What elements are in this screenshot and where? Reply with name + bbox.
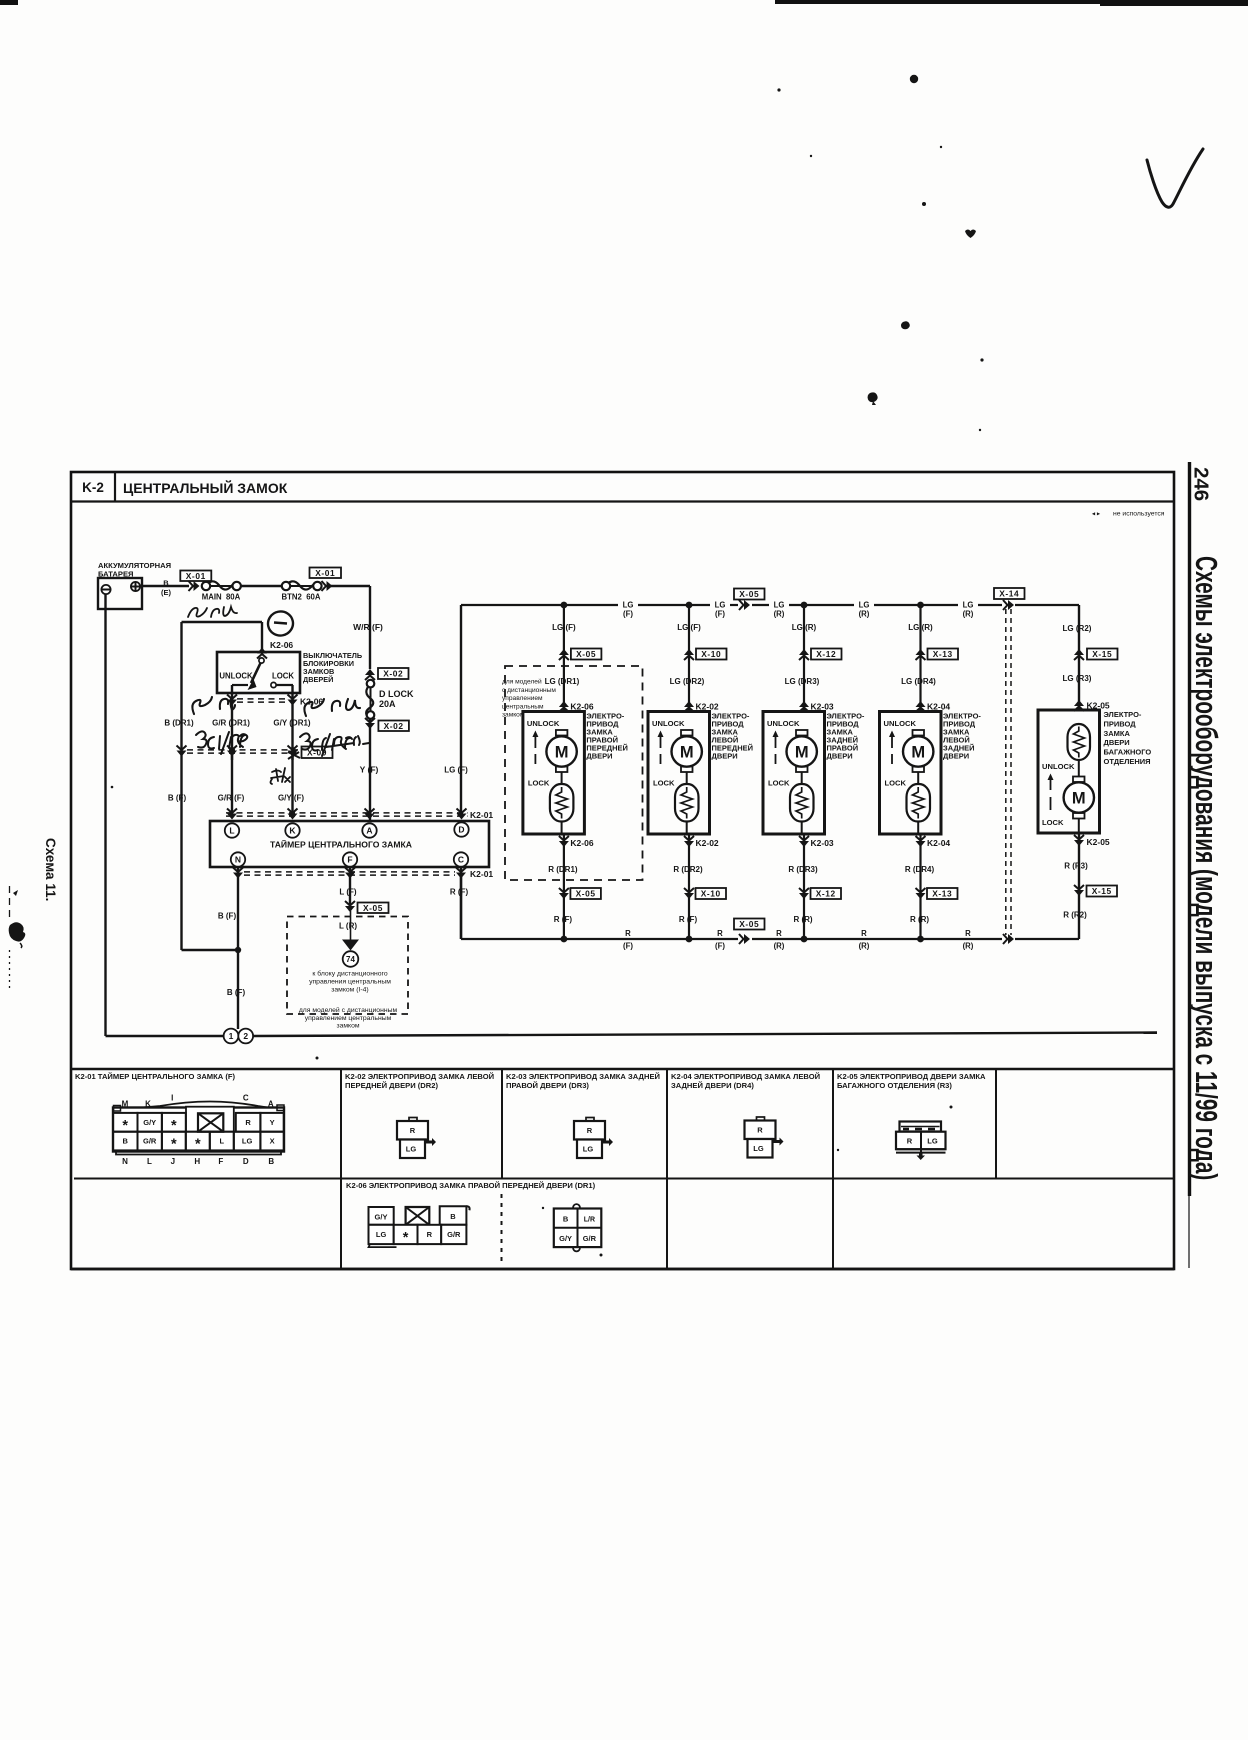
svg-text:LG: LG	[774, 601, 785, 610]
svg-text:Y (F): Y (F)	[360, 765, 379, 775]
handwriting Черн	[188, 607, 237, 617]
svg-text:L (F): L (F)	[339, 888, 357, 897]
dashed divider row2	[501, 1194, 503, 1265]
svg-text:замком (I-4): замком (I-4)	[331, 987, 368, 994]
svg-text:управления центральным: управления центральным	[309, 979, 391, 986]
label box X-05 top	[571, 649, 602, 660]
connector X-01 left	[189, 581, 194, 591]
margin ink blob	[9, 922, 26, 941]
connector K2-01 pin A entry	[365, 809, 375, 814]
timer pin F	[343, 852, 357, 866]
junction LG bus	[561, 602, 568, 609]
connector K2-03 top	[799, 708, 809, 713]
wire switch feed horizontal	[182, 621, 263, 623]
svg-text:74: 74	[346, 955, 355, 964]
svg-text:K2-01 ТАЙМЕР ЦЕНТРАЛЬНОГО ЗАМК: K2-01 ТАЙМЕР ЦЕНТРАЛЬНОГО ЗАМКА (F)	[75, 1072, 236, 1081]
svg-text:Схема 11.: Схема 11.	[43, 838, 58, 901]
connector drawing K2-01	[113, 1102, 284, 1111]
resistor K2-04	[907, 784, 931, 822]
label box X-13 bottom	[927, 888, 958, 899]
svg-text:(F): (F)	[623, 610, 633, 619]
scan edge line top	[775, 0, 1248, 4]
svg-text:LOCK: LOCK	[885, 779, 907, 788]
svg-text:LG (DR4): LG (DR4)	[901, 677, 936, 686]
svg-text:LG (F): LG (F)	[444, 766, 468, 775]
connector X-09 pin G/Y	[288, 746, 298, 751]
lock direction arrow	[660, 737, 662, 748]
resistor K2-02	[675, 784, 699, 822]
svg-text:Y: Y	[270, 1118, 275, 1127]
svg-text:*: *	[195, 1137, 201, 1153]
connector K2-02 bottom	[684, 836, 694, 841]
svg-text:G/R: G/R	[143, 1137, 157, 1146]
svg-text:G/Y: G/Y	[143, 1118, 156, 1127]
svg-text:G/Y (F): G/Y (F)	[278, 794, 304, 803]
svg-text:LG: LG	[715, 601, 726, 610]
connector drawing K2-04	[757, 1117, 765, 1121]
svg-text:R: R	[717, 929, 723, 938]
connector X-05 pin L	[345, 901, 355, 906]
svg-text:K2-05 ЭЛЕКТРОПРИВОД ДВЕРИ ЗАМК: K2-05 ЭЛЕКТРОПРИВОД ДВЕРИ ЗАМКА	[837, 1072, 986, 1081]
wire LG (R2) trunk riser	[1078, 605, 1080, 710]
svg-text:B (F): B (F)	[218, 912, 237, 921]
label box X-13 top	[928, 649, 959, 660]
dashed box remote models DR1	[505, 666, 643, 880]
junction LG bus	[686, 602, 693, 609]
fuse BTN2 60A	[286, 585, 317, 587]
connector K2-01 pin N exit	[233, 868, 243, 873]
junction R bus	[686, 936, 693, 943]
svg-text:R: R	[757, 1126, 763, 1135]
svg-text:X-10: X-10	[701, 649, 721, 659]
svg-text:LG (R2): LG (R2)	[1063, 624, 1092, 633]
label box X-09	[302, 747, 333, 759]
svg-text:R: R	[965, 929, 971, 938]
timer pin L	[225, 823, 239, 837]
svg-text:LOCK: LOCK	[272, 672, 294, 681]
svg-text:R: R	[861, 929, 867, 938]
svg-text:B (F): B (F)	[168, 794, 187, 803]
svg-text:B: B	[268, 1157, 274, 1166]
wire ground return long	[253, 1033, 1157, 1037]
svg-text:X-05: X-05	[576, 649, 596, 659]
svg-text:для моделей с дистанционным: для моделей с дистанционным	[299, 1006, 398, 1014]
connector row X-09	[187, 749, 300, 751]
svg-text:R (R3): R (R3)	[1064, 862, 1088, 871]
svg-text:ДВЕРИ: ДВЕРИ	[1104, 738, 1130, 747]
connector X-12 top	[799, 656, 809, 661]
resistor K2-03	[790, 784, 814, 822]
svg-text:K2-01: K2-01	[470, 810, 493, 820]
connector K2-04 bottom	[916, 836, 926, 841]
connector row K2-06 below switch	[237, 698, 288, 700]
label box X-01 second	[310, 568, 342, 579]
svg-text:(F): (F)	[715, 610, 725, 619]
connector K2-01 pin C exit	[456, 868, 466, 873]
svg-text:ДВЕРИ: ДВЕРИ	[827, 752, 853, 761]
connector X-05 bottom	[559, 888, 569, 893]
svg-text:X-15: X-15	[1092, 649, 1112, 659]
actuator front left door DR2	[688, 605, 690, 713]
svg-text:R (R2): R (R2)	[1063, 911, 1087, 920]
connector X-02 bottom	[365, 718, 375, 723]
svg-text:(R): (R)	[774, 610, 785, 619]
fuse D LOCK 20A	[370, 684, 372, 715]
svg-text:K2-04 ЭЛЕКТРОПРИВОД ЗАМКА ЛЕВО: K2-04 ЭЛЕКТРОПРИВОД ЗАМКА ЛЕВОЙ	[671, 1072, 820, 1081]
svg-text:ДВЕРИ: ДВЕРИ	[712, 752, 738, 761]
svg-text:(R): (R)	[963, 942, 974, 951]
svg-text:LG: LG	[753, 1144, 764, 1153]
label box X-15 bottom	[1087, 886, 1118, 897]
svg-text:B: B	[450, 1212, 456, 1221]
svg-text:Схемы электрооборудования (мод: Схемы электрооборудования (модели выпуск…	[1189, 556, 1224, 1180]
connector drawing K2-05	[900, 1122, 942, 1132]
wire Y (F) to timer pin A	[369, 719, 371, 821]
connector K2-06 pin lock	[288, 695, 298, 700]
label box X-05 bus bottom	[734, 919, 765, 930]
node 2	[238, 1029, 253, 1044]
wire G/R at X-09	[231, 747, 233, 760]
svg-text:*: *	[403, 1230, 409, 1246]
timer pin D	[454, 822, 468, 836]
wire G/Y switch to timer K	[291, 685, 293, 814]
sidebar separator line	[1188, 462, 1191, 1196]
svg-text:K2-04: K2-04	[927, 838, 950, 848]
svg-text:H: H	[194, 1157, 200, 1166]
timer pin N	[231, 852, 245, 866]
motor M K2-03	[796, 730, 808, 736]
svg-text:X-13: X-13	[933, 649, 953, 659]
svg-text:M: M	[555, 744, 569, 762]
svg-text:N: N	[122, 1157, 128, 1166]
svg-text:L: L	[220, 1137, 225, 1146]
svg-text:G/Y (DR1): G/Y (DR1)	[273, 719, 311, 728]
junction R bus	[801, 936, 808, 943]
svg-text:C: C	[243, 1094, 249, 1103]
svg-text:1: 1	[229, 1031, 234, 1041]
timer pin A	[362, 823, 376, 837]
svg-text:R: R	[776, 929, 782, 938]
resistor K2-06	[550, 784, 574, 822]
label box X-02 bottom	[378, 721, 409, 732]
handwriting ЗС1/КР big left	[196, 731, 247, 754]
svg-text:M: M	[911, 744, 925, 762]
connector K2-01 pin D entry	[457, 809, 467, 814]
label box X-15 top	[1087, 649, 1118, 660]
junction R bus	[917, 936, 924, 943]
handwriting scribble 2	[304, 699, 360, 716]
svg-text:M: M	[122, 1100, 129, 1109]
junction B wire	[235, 947, 241, 953]
connector K2-04 top	[916, 708, 926, 713]
timer pin K	[285, 823, 299, 837]
svg-text:A: A	[268, 1100, 274, 1109]
svg-text:UNLOCK: UNLOCK	[884, 719, 917, 728]
wire between fuses	[241, 585, 282, 587]
connector X-14 top	[1003, 600, 1008, 610]
switch ВЫКЛЮЧАТЕЛЬ БЛОКИРОВКИ ЗАМКОВ ДВЕРЕЙ	[217, 652, 300, 693]
svg-text:M: M	[1072, 790, 1086, 808]
svg-text:ОТДЕЛЕНИЯ: ОТДЕЛЕНИЯ	[1104, 757, 1151, 766]
svg-text:X-05: X-05	[363, 903, 383, 913]
label box X-10 top	[696, 649, 727, 660]
svg-text:R (DR4): R (DR4)	[905, 865, 935, 874]
svg-text:LG: LG	[859, 601, 870, 610]
svg-text:LOCK: LOCK	[1042, 818, 1064, 827]
svg-text:R (F): R (F)	[679, 915, 698, 924]
svg-text:G/R: G/R	[447, 1230, 461, 1239]
svg-text:ЗАМКА: ЗАМКА	[1104, 729, 1131, 738]
svg-text:K: K	[145, 1100, 151, 1109]
svg-text:БАТАРЕЯ: БАТАРЕЯ	[98, 570, 134, 579]
svg-text:M: M	[795, 744, 809, 762]
table column dividers	[340, 1069, 342, 1269]
diagram outer frame	[71, 472, 1174, 1269]
svg-text:MAIN 80A: MAIN 80A	[202, 593, 241, 602]
svg-text:X-02: X-02	[384, 721, 404, 731]
connector X-05 top	[559, 656, 569, 661]
connector X-10 bottom	[684, 888, 694, 893]
svg-text:ПЕРЕДНЕЙ ДВЕРИ (DR2): ПЕРЕДНЕЙ ДВЕРИ (DR2)	[345, 1081, 438, 1090]
svg-text:X-12: X-12	[816, 649, 836, 659]
dashed box remote control unit	[287, 917, 408, 1015]
svg-text:UNLOCK: UNLOCK	[652, 719, 685, 728]
wire B (F) from pin N	[237, 867, 239, 1029]
timer pin C	[454, 852, 468, 866]
handwriting scribble 1	[192, 697, 235, 714]
svg-text:LG (R): LG (R)	[792, 623, 817, 632]
wire to W/R riser	[331, 585, 370, 587]
svg-text:LG (DR2): LG (DR2)	[670, 677, 705, 686]
handwriting emphasis at X-09	[288, 752, 300, 759]
connector X-10 top	[684, 656, 694, 661]
svg-text:A: A	[366, 826, 372, 836]
connector K2-06 bottom	[559, 836, 569, 841]
svg-text:G/R (DR1): G/R (DR1)	[212, 719, 250, 728]
wire G/R switch to timer L	[231, 685, 233, 814]
actuator front right door DR1	[563, 605, 565, 713]
connector X-05 bus bottom	[739, 934, 744, 944]
svg-text:ЗАДНЕЙ ДВЕРИ (DR4): ЗАДНЕЙ ДВЕРИ (DR4)	[671, 1081, 754, 1090]
handwriting oval mark	[266, 609, 295, 638]
svg-text:R (F): R (F)	[554, 915, 573, 924]
svg-text:БАГАЖНОГО ОТДЕЛЕНИЯ (R3): БАГАЖНОГО ОТДЕЛЕНИЯ (R3)	[837, 1081, 952, 1090]
svg-text:R (F): R (F)	[450, 888, 469, 897]
handwriting ЗСЛ/КР big right	[300, 733, 369, 756]
connector X-14 bottom	[1003, 934, 1008, 944]
lock direction arrow	[891, 737, 893, 748]
connector K2-02 top	[684, 708, 694, 713]
svg-text:K2-05: K2-05	[1087, 837, 1110, 847]
connector X-02 top	[365, 676, 375, 681]
svg-text:LG: LG	[406, 1145, 417, 1154]
connector row K2-01 top	[226, 812, 468, 814]
svg-text:2: 2	[243, 1031, 248, 1041]
svg-text:LG (F): LG (F)	[552, 623, 576, 632]
connector X-09 pin G/R	[227, 746, 237, 751]
svg-text:с дистанционным: с дистанционным	[502, 687, 556, 694]
label box X-10 bottom	[696, 888, 727, 899]
svg-text:X-01: X-01	[315, 568, 335, 578]
svg-text:K2-03 ЭЛЕКТРОПРИВОД ЗАМКА ЗАДН: K2-03 ЭЛЕКТРОПРИВОД ЗАМКА ЗАДНЕЙ	[506, 1072, 660, 1081]
connector K2-01 pin F exit	[345, 868, 355, 873]
lock direction arrow	[534, 737, 536, 748]
svg-text:B: B	[163, 579, 169, 588]
svg-text:UNLOCK: UNLOCK	[219, 672, 253, 681]
battery АККУМУЛЯТОРНАЯ БАТАРЕЯ	[98, 578, 142, 609]
actuator box K2-02	[648, 712, 710, 835]
svg-text:UNLOCK: UNLOCK	[1042, 762, 1075, 771]
connector K2-05 bottom	[1074, 835, 1084, 840]
svg-text:LOCK: LOCK	[653, 779, 675, 788]
connector K2-06 switch	[257, 654, 267, 659]
handwritten checkmark	[1147, 149, 1203, 207]
connector X-15 top	[1074, 656, 1084, 661]
connector K2-06 top	[559, 708, 569, 713]
connector drawing K2-06	[369, 1207, 394, 1225]
svg-text:R (R): R (R)	[793, 915, 812, 924]
svg-text:R: R	[625, 929, 631, 938]
svg-text:LG (R): LG (R)	[908, 623, 933, 632]
svg-text:UNLOCK: UNLOCK	[527, 719, 560, 728]
svg-text:LG (R3): LG (R3)	[1063, 674, 1092, 683]
svg-text:M: M	[680, 744, 694, 762]
connector row K2-01 bottom	[244, 871, 455, 873]
svg-text:центральным: центральным	[502, 703, 544, 710]
node 1	[224, 1029, 239, 1044]
wire L (F) from pin F	[349, 867, 351, 911]
svg-text:R: R	[245, 1118, 251, 1127]
connector X-14 dashed link	[1005, 609, 1007, 935]
table frame	[71, 1068, 1174, 1070]
svg-text:LG (F): LG (F)	[677, 623, 701, 632]
svg-text:D: D	[458, 825, 464, 835]
svg-text:X-10: X-10	[701, 889, 721, 899]
motor M K2-06	[556, 730, 568, 736]
connector K2-06 pin unlock	[227, 695, 237, 700]
wire W/R (F) riser	[369, 586, 371, 669]
svg-text:для моделей: для моделей	[502, 678, 542, 686]
svg-text:J: J	[171, 1157, 175, 1166]
svg-text:X: X	[270, 1137, 275, 1146]
resistor K2-05	[1068, 724, 1091, 760]
svg-text:K2-03: K2-03	[811, 838, 834, 848]
svg-text:G/Y: G/Y	[559, 1234, 572, 1243]
svg-text:B: B	[563, 1215, 569, 1224]
connector drawing K2-02	[409, 1118, 417, 1122]
motor M trunk	[1073, 777, 1085, 783]
motor M K2-02	[681, 730, 693, 736]
svg-text:LG: LG	[583, 1145, 594, 1154]
svg-text:LG (DR1): LG (DR1)	[545, 677, 580, 686]
svg-text:X-13: X-13	[932, 889, 952, 899]
svg-text:X-02: X-02	[383, 669, 403, 679]
svg-text:LG (DR3): LG (DR3)	[785, 677, 820, 686]
handwriting small cross	[271, 768, 291, 784]
motor M K2-04	[913, 730, 925, 736]
svg-text:R: R	[587, 1126, 593, 1135]
svg-text:*: *	[171, 1137, 177, 1153]
svg-text:R (DR2): R (DR2)	[673, 865, 703, 874]
svg-text:UNLOCK: UNLOCK	[767, 719, 800, 728]
svg-text:LG: LG	[242, 1137, 253, 1146]
svg-text:L: L	[147, 1157, 152, 1166]
label box X-05 bus top	[734, 589, 765, 600]
connector X-01 right	[322, 581, 327, 591]
label box X-12 bottom	[811, 888, 842, 899]
svg-text:LG: LG	[376, 1230, 387, 1239]
svg-text:R (R): R (R)	[910, 915, 929, 924]
svg-text:X-05: X-05	[739, 919, 759, 929]
svg-text:F: F	[218, 1157, 223, 1166]
svg-text:LOCK: LOCK	[528, 779, 550, 788]
junction R bus	[561, 936, 568, 943]
svg-text:ТАЙМЕР ЦЕНТРАЛЬНОГО ЗАМКА: ТАЙМЕР ЦЕНТРАЛЬНОГО ЗАМКА	[270, 839, 412, 850]
connector drawing K2-03	[586, 1118, 594, 1122]
svg-text:LG: LG	[927, 1137, 938, 1146]
svg-text:ПРИВОД: ПРИВОД	[1104, 719, 1137, 728]
svg-text:G/R: G/R	[583, 1234, 597, 1243]
svg-text:(R): (R)	[859, 610, 870, 619]
svg-text:(F): (F)	[623, 942, 633, 951]
label box X-05 bottom	[570, 888, 601, 899]
connector X-13 top	[916, 656, 926, 661]
svg-text:замком: замком	[502, 712, 525, 719]
wire R (F) to bottom bus	[460, 874, 462, 939]
svg-text:R: R	[410, 1126, 416, 1135]
svg-text:D: D	[243, 1157, 249, 1166]
svg-text:не используется: не используется	[1113, 511, 1165, 518]
svg-text:LG: LG	[623, 601, 634, 610]
junction LG bus	[917, 602, 924, 609]
svg-text:G/Y: G/Y	[375, 1213, 388, 1222]
svg-text:X-01: X-01	[186, 571, 206, 581]
svg-text:K2-06: K2-06	[570, 838, 593, 848]
svg-text:L (R): L (R)	[339, 922, 357, 931]
svg-text:ЭЛЕКТРО-: ЭЛЕКТРО-	[1104, 710, 1142, 719]
svg-text:LG: LG	[963, 601, 974, 610]
actuator box K2-05 trunk	[1038, 710, 1100, 833]
svg-text:X-15: X-15	[1092, 886, 1112, 896]
connector K2-01 pin L entry	[227, 809, 237, 814]
svg-text:B: B	[123, 1137, 129, 1146]
svg-text:X-09: X-09	[307, 747, 327, 757]
svg-text:C: C	[458, 855, 464, 865]
svg-text:20A: 20A	[379, 699, 396, 709]
wire battery B(E) feed	[140, 585, 189, 587]
label box X-12 top	[811, 649, 842, 660]
arrow to remote unit	[342, 940, 359, 951]
header K-2 divider	[114, 472, 116, 502]
wire to ground node 1	[106, 1035, 224, 1037]
svg-text:K: K	[289, 826, 296, 836]
actuator rear right door DR3	[803, 605, 805, 713]
connector X-15 bottom	[1074, 885, 1084, 890]
connector K2-01 pin K entry	[288, 809, 298, 814]
svg-text:X-12: X-12	[816, 889, 836, 899]
svg-text:(R): (R)	[774, 942, 785, 951]
svg-text:K-2: K-2	[82, 480, 104, 495]
svg-text:ДВЕРЕЙ: ДВЕРЕЙ	[303, 675, 333, 684]
lock direction arrow	[775, 737, 777, 748]
bus LG top	[461, 604, 618, 606]
svg-text:BTN2 60A: BTN2 60A	[282, 593, 321, 602]
svg-text:B (DR1): B (DR1)	[164, 719, 194, 728]
svg-text:управлением центральным: управлением центральным	[305, 1015, 392, 1022]
svg-text:L/R: L/R	[584, 1217, 595, 1224]
node 74	[343, 951, 359, 967]
wire battery ground down-left	[104, 594, 106, 1036]
